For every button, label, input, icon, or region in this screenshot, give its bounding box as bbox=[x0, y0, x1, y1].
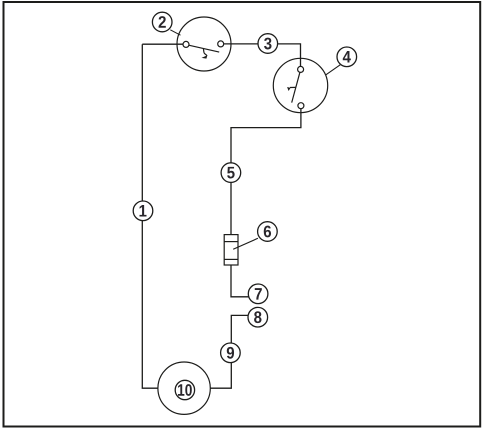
switch 4 movement squiggle bbox=[290, 86, 296, 88]
switch 4 bottom terminal bbox=[298, 103, 304, 109]
wire: switch 4 bottom down, left, down through node 5 to fuse 6 bbox=[231, 109, 301, 235]
node label 3 bbox=[258, 34, 278, 54]
switch 2 left terminal bbox=[183, 41, 189, 47]
node label 8 bbox=[248, 307, 268, 327]
fuse 6 body bbox=[224, 235, 238, 265]
switch 2 movement squiggle bbox=[203, 49, 207, 56]
leader line for label 4 bbox=[326, 65, 341, 75]
switch 4 arm bbox=[292, 72, 300, 102]
switch 4 top terminal bbox=[298, 66, 304, 72]
wire: top horizontal into switch 2 left terminal bbox=[142, 43, 186, 45]
switch 4 body circle bbox=[273, 58, 327, 112]
component label 6 (fuse) bbox=[258, 222, 278, 242]
component label 4 bbox=[337, 47, 357, 67]
node label 1 bbox=[133, 201, 153, 221]
fuse 6 end caps bbox=[224, 241, 238, 243]
component label 2 bbox=[152, 12, 172, 32]
node label 9 bbox=[221, 343, 241, 363]
wire: left vertical run (node 1 wire) from switch 2 down to motor 10 bbox=[142, 44, 158, 388]
switch 2 arm bbox=[189, 45, 220, 52]
node label 5 bbox=[221, 163, 241, 183]
wire: fuse 6 bottom down and right to node 7 bbox=[231, 265, 250, 297]
wire: switch 2 right terminal through node 3 to switch 4 top bbox=[224, 44, 301, 70]
motor 10 body circle bbox=[158, 362, 210, 414]
switch 2 body circle bbox=[177, 17, 231, 71]
leader line for label 6 bbox=[233, 238, 258, 249]
wire: node 8 stub left, down through node 9, left into motor 10 bbox=[210, 315, 249, 388]
motor label 10 bbox=[175, 380, 194, 399]
switch 2 right terminal bbox=[218, 41, 224, 47]
node label 7 bbox=[248, 284, 268, 304]
leader line for label 2 bbox=[170, 30, 180, 35]
